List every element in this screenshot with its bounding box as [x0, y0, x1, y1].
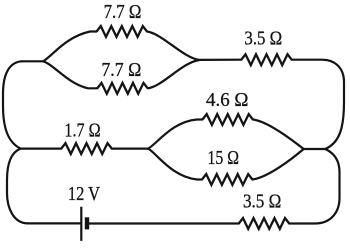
battery V1 12 V short thick plate — [85, 217, 89, 229]
wire mid fork down to R5 — [148, 149, 202, 180]
wire R1 to merge — [147, 32, 199, 60]
wire R3 to top-right corner — [292, 60, 344, 102]
resistor R7 3.5 ohm bottom — [239, 218, 289, 229]
svg-text:7.7 Ω: 7.7 Ω — [104, 2, 142, 23]
wire battery to R7 — [89, 222, 239, 224]
wire R5 to right merge — [252, 149, 303, 179]
wire left rail upper C — [3, 61, 23, 148]
wire bottom row to battery — [28, 222, 81, 224]
wire lower-left curve to R2 — [43, 61, 97, 88]
wire left rail lower C — [7, 149, 28, 224]
svg-text:4.6 Ω: 4.6 Ω — [206, 90, 249, 111]
battery V1 12 V long plate — [80, 207, 82, 241]
wire mid junction to lower rail — [325, 149, 339, 198]
svg-text:3.5 Ω: 3.5 Ω — [244, 29, 282, 50]
resistor R4 4.6 ohm — [203, 114, 253, 125]
resistor R2 7.7 ohm second — [97, 83, 147, 94]
wire R4 to right merge — [253, 120, 304, 149]
svg-text:12 V: 12 V — [68, 184, 100, 205]
resistor R1 7.7 ohm top — [97, 26, 147, 37]
wire mid junction bar — [304, 148, 326, 150]
wire middle row mid — [112, 148, 149, 150]
wire middle row left — [21, 148, 62, 150]
resistor R5 15 ohm — [202, 174, 252, 185]
svg-text:1.7 Ω: 1.7 Ω — [64, 121, 100, 142]
wire lower-right corner to R7 — [289, 198, 339, 224]
resistor R6 1.7 ohm — [61, 143, 111, 154]
svg-text:7.7 Ω: 7.7 Ω — [101, 60, 141, 81]
resistor R3 3.5 ohm top-right — [241, 54, 291, 65]
wire right rail into mid junction — [325, 102, 344, 149]
svg-text:3.5 Ω: 3.5 Ω — [243, 192, 281, 213]
wire mid fork up to R4 — [148, 120, 202, 149]
wire R2 to merge — [148, 60, 199, 88]
wire merge stub to R3 — [199, 59, 241, 61]
svg-text:15 Ω: 15 Ω — [208, 148, 240, 169]
wire fork stub left — [23, 60, 44, 62]
wire upper-left curve to R1 — [43, 32, 97, 62]
